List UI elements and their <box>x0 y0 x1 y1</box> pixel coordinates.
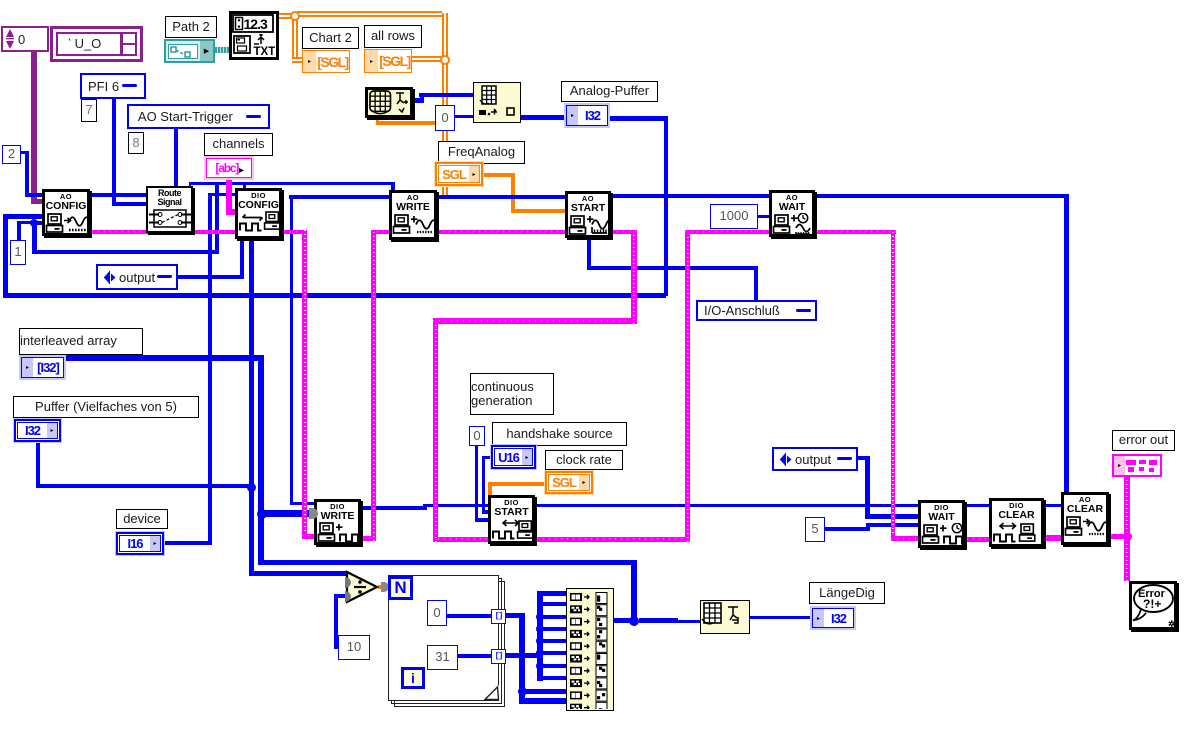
svg-text:✲: ✲ <box>1168 619 1176 629</box>
svg-text:?!+: ?!+ <box>1143 597 1161 611</box>
svg-text:12.3: 12.3 <box>244 16 268 32</box>
svg-text:TXT: TXT <box>254 46 276 56</box>
